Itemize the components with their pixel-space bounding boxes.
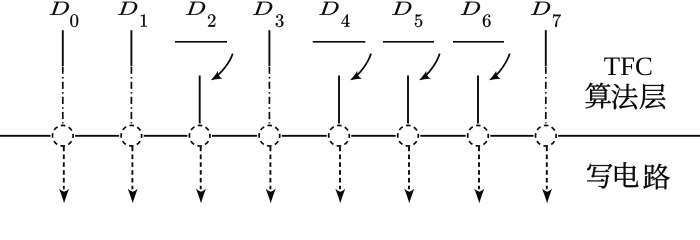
- label D0: [50, 2, 69, 15]
- subscript 7 of D7: [553, 14, 561, 27]
- dashed output arrow below node D7: [546, 147, 548, 190]
- subscript 4 of D4: [341, 14, 349, 26]
- subscript 2 of D2: [208, 14, 215, 26]
- wire: main horizontal line segment 1: [75, 135, 119, 137]
- curved arrow from overbar D4 to wire: [352, 54, 371, 80]
- wire: main horizontal line segment 7: [490, 135, 533, 137]
- dashed output arrow below node D6: [478, 147, 480, 190]
- wire: solid segment below label D0: [62, 30, 64, 66]
- text label 算法层 (algorithm layer): [585, 83, 611, 109]
- subscript 1 of D1: [141, 14, 147, 26]
- label D3: [253, 2, 272, 15]
- wire: main horizontal line segment 6: [420, 135, 465, 137]
- subscript 0 of D0: [70, 14, 78, 27]
- node circle at column D3: [259, 125, 280, 146]
- wire: main horizontal line segment 3: [212, 135, 257, 137]
- overbar above D6 column: [453, 41, 504, 43]
- wire: solid segment from curved arrow target down to node circle, column D5: [407, 76, 409, 124]
- overbar above D5 column: [383, 41, 434, 43]
- node circle at column D0: [53, 125, 74, 146]
- curved arrow from overbar D5 to wire: [421, 54, 440, 80]
- wire: main horizontal line segment 0: [0, 135, 51, 137]
- wire: solid segment below label D3: [268, 30, 270, 66]
- wire: main horizontal line segment 5: [351, 135, 395, 137]
- wire: dash-dot segment down to node circle, column D0: [62, 67, 64, 124]
- wire: solid segment from curved arrow target down to node circle, column D6: [477, 76, 479, 124]
- dashed output arrow below node D5: [408, 147, 410, 190]
- label D4: [319, 2, 338, 15]
- curved arrow from overbar D2 to wire: [213, 54, 233, 80]
- wire: dash-dot segment down to node circle, column D7: [545, 67, 547, 124]
- wire: solid segment from curved arrow target down to node circle, column D4: [338, 76, 340, 124]
- wire: main horizontal line segment 4: [282, 135, 327, 137]
- wire: solid segment below label D7: [545, 30, 547, 66]
- wire: dash-dot segment down to node circle, column D1: [130, 67, 132, 124]
- dashed output arrow below node D4: [339, 147, 341, 190]
- overbar above D4 column: [313, 41, 366, 43]
- dashed output arrow below node D0: [63, 147, 65, 190]
- wire: solid segment below label D1: [130, 30, 132, 66]
- dashed output arrow below node D3: [269, 147, 271, 190]
- wire: main horizontal line segment 8: [558, 135, 700, 137]
- subscript 5 of D5: [415, 14, 422, 27]
- wire: dash-dot segment down to node circle, column D3: [268, 67, 270, 124]
- label D7: [531, 2, 550, 15]
- node circle at column D5: [398, 125, 419, 146]
- curved arrow from overbar D6 to wire: [491, 54, 510, 80]
- wire: solid segment from curved arrow target down to node circle, column D2: [199, 76, 201, 124]
- subscript 3 of D3: [276, 14, 284, 27]
- node circle at column D6: [468, 125, 489, 146]
- wire: main horizontal line segment 2: [144, 135, 188, 137]
- dashed output arrow below node D1: [131, 147, 133, 190]
- subscript 6 of D6: [483, 14, 491, 27]
- svg-text:TFC: TFC: [604, 51, 653, 81]
- label D5: [392, 2, 411, 15]
- node circle at column D4: [329, 125, 350, 146]
- label D6: [461, 2, 480, 15]
- overbar above D2 column: [175, 41, 227, 43]
- node circle at column D2: [189, 125, 210, 146]
- label D1: [118, 2, 137, 15]
- dashed output arrow below node D2: [200, 147, 202, 190]
- node circle at column D7: [536, 125, 557, 146]
- label D2: [186, 2, 205, 15]
- text label 写电路 (write circuit): [587, 164, 612, 189]
- node circle at column D1: [121, 125, 142, 146]
